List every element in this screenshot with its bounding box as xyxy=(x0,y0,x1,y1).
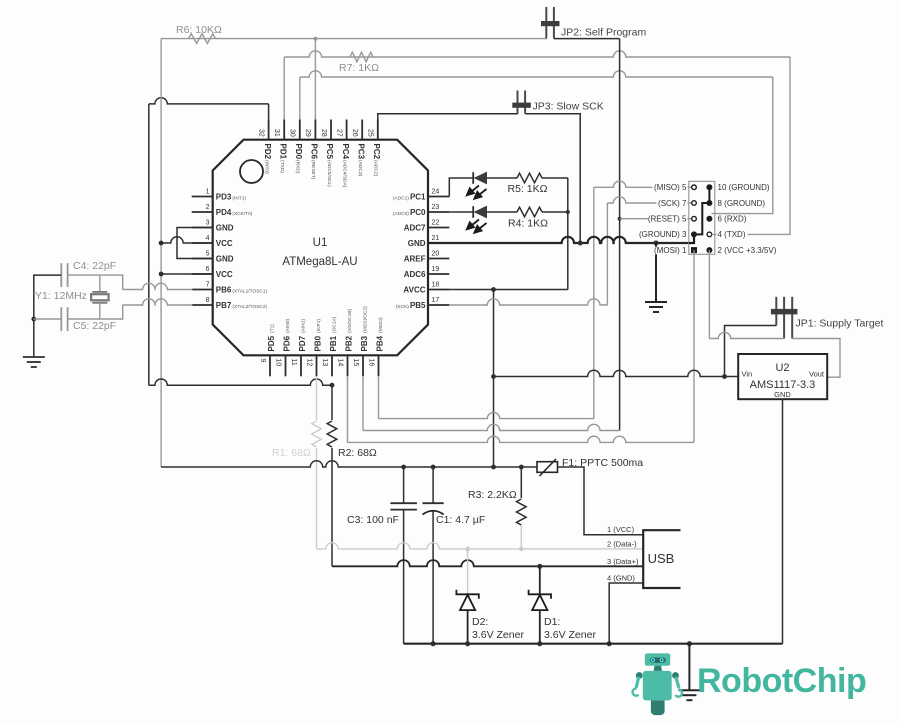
wire JP3 right pin to GND xyxy=(525,114,580,243)
fuse F1 PPTC xyxy=(537,462,558,473)
svg-text:PC4: PC4 xyxy=(341,144,350,160)
svg-text:Y1: 12MHz: Y1: 12MHz xyxy=(35,290,87,302)
wire RESET row xyxy=(620,218,694,220)
wire SCK vertical xyxy=(606,203,608,305)
svg-text:22: 22 xyxy=(432,220,440,227)
pin 17 PB5 (right) xyxy=(428,304,449,306)
wire USB Data+ xyxy=(332,560,643,566)
ground left of crystal xyxy=(23,356,45,358)
svg-text:(SS/OC1B): (SS/OC1B) xyxy=(347,309,353,333)
wire JP1 left leg to VCC line xyxy=(725,326,777,377)
svg-text:PD4: PD4 xyxy=(216,208,232,217)
svg-text:Vout: Vout xyxy=(809,370,825,379)
svg-text:16: 16 xyxy=(367,359,374,367)
svg-text:(INT0): (INT0) xyxy=(263,160,269,174)
wire rail to USB VCC xyxy=(558,467,644,535)
svg-text:(ADC4/SDA): (ADC4/SDA) xyxy=(341,160,347,188)
wire RXD from pin30 xyxy=(300,71,773,77)
svg-text:24: 24 xyxy=(432,189,440,196)
svg-text:PB6: PB6 xyxy=(216,286,232,295)
ISP pin dot VCC2 xyxy=(706,247,712,253)
wire C5 stub xyxy=(34,318,62,320)
pin 14 PB2 (bottom) xyxy=(347,355,349,376)
svg-text:3 (Data+): 3 (Data+) xyxy=(607,557,639,566)
svg-text:5: 5 xyxy=(206,251,210,258)
wire VCC pin2 down xyxy=(708,250,710,338)
svg-text:10: 10 xyxy=(274,359,281,367)
wire XTAL2 pin8 row xyxy=(123,299,193,305)
node VCC pin6 xyxy=(159,272,164,277)
pin 3 GND (left) xyxy=(192,227,213,229)
svg-text:PB4: PB4 xyxy=(375,335,384,351)
LED D-green on PC1 xyxy=(472,172,474,184)
pin 10 PD6 (bottom) xyxy=(285,355,287,376)
svg-text:3.6V Zener: 3.6V Zener xyxy=(544,629,596,641)
svg-text:VCC: VCC xyxy=(216,270,233,279)
ISP pin dot GROUND3 xyxy=(691,231,697,237)
svg-text:2 (VCC +3.3/5V): 2 (VCC +3.3/5V) xyxy=(718,246,777,255)
svg-text:C1: 4.7 µF: C1: 4.7 µF xyxy=(436,514,485,526)
resistor R4 xyxy=(517,207,542,217)
svg-text:(MISO) 5: (MISO) 5 xyxy=(654,183,687,192)
LED2 arrows xyxy=(467,220,487,233)
ISP internal link 8 to GROUND3 xyxy=(694,203,709,234)
svg-text:(ICP1): (ICP1) xyxy=(316,319,322,333)
svg-text:ADC7: ADC7 xyxy=(404,224,426,233)
svg-text:PD2: PD2 xyxy=(263,144,272,160)
wire JP1 right leg to U2 Vout xyxy=(792,339,840,378)
wire C5 row to pin8 jog xyxy=(68,305,123,319)
svg-text:6 (RXD): 6 (RXD) xyxy=(718,215,747,224)
svg-text:14: 14 xyxy=(336,359,343,367)
pin 24 PC1 (right) xyxy=(428,196,449,198)
node USB GND on rail xyxy=(607,641,612,646)
LED D-red on PC0 xyxy=(472,206,474,218)
svg-text:7: 7 xyxy=(206,282,210,289)
wire MISO lower to PB4 xyxy=(378,376,380,418)
svg-text:JP1: Supply Target: JP1: Supply Target xyxy=(796,318,884,330)
svg-text:GND: GND xyxy=(774,390,791,399)
svg-text:8: 8 xyxy=(206,297,210,304)
node R3 on rail xyxy=(519,465,524,470)
svg-text:PD3: PD3 xyxy=(216,193,232,202)
svg-text:(TXD): (TXD) xyxy=(279,160,285,173)
svg-text:(AIN0): (AIN0) xyxy=(285,319,291,333)
wire crystal left rail xyxy=(34,275,62,357)
svg-text:(SCK) 7: (SCK) 7 xyxy=(658,199,687,208)
capacitor C5 xyxy=(60,307,62,331)
jumper JP2 Self Program xyxy=(545,7,547,39)
svg-text:31: 31 xyxy=(273,129,280,137)
ground symbol bottom right xyxy=(678,689,700,691)
wire MISO vertical xyxy=(593,187,595,418)
wire U2 GND down to rail xyxy=(782,399,784,644)
diode D1 3.6V zener xyxy=(539,566,541,594)
resistor R1 68ohm (unpopulated) xyxy=(316,376,318,420)
svg-text:PD1: PD1 xyxy=(278,144,287,160)
svg-text:D2:: D2: xyxy=(472,616,488,628)
svg-text:PD0: PD0 xyxy=(294,144,303,160)
svg-text:C5: 22pF: C5: 22pF xyxy=(73,320,116,332)
wire SCK pin17 row xyxy=(449,299,607,305)
svg-text:32: 32 xyxy=(257,129,264,137)
svg-text:(XCK/T0): (XCK/T0) xyxy=(232,211,252,217)
svg-text:R7: 1KΩ: R7: 1KΩ xyxy=(339,62,379,74)
op-amp U1 ATMega8L-AU outline xyxy=(213,140,428,356)
svg-text:29: 29 xyxy=(304,129,311,137)
wire AVCC vertical down to VCC line xyxy=(493,290,495,468)
pin 4 VCC (left) xyxy=(192,242,213,244)
ISP pin circles left 5,7,5 xyxy=(692,185,697,190)
svg-text:PC5: PC5 xyxy=(325,144,334,160)
svg-text:9: 9 xyxy=(259,359,266,363)
wire USB GND xyxy=(609,583,643,644)
svg-text:2 (Data-): 2 (Data-) xyxy=(607,540,637,549)
svg-text:30: 30 xyxy=(289,129,296,137)
pin 16 PB4 (bottom) xyxy=(378,355,380,376)
node R3 on Data- xyxy=(519,547,524,552)
svg-text:25: 25 xyxy=(367,129,374,137)
svg-text:PD5: PD5 xyxy=(267,335,276,351)
svg-text:10 (GROUND): 10 (GROUND) xyxy=(718,183,770,192)
svg-text:4 (TXD): 4 (TXD) xyxy=(718,230,746,239)
pin 13 PB1 (bottom) xyxy=(331,355,333,376)
wire RXD to connector xyxy=(712,77,773,214)
node JP1 left leg on VCC line xyxy=(722,374,727,379)
wire to bottom ground symbol xyxy=(688,644,690,691)
svg-text:PB0: PB0 xyxy=(313,335,322,351)
svg-text:(GROUND) 3: (GROUND) 3 xyxy=(639,230,687,239)
svg-text:VCC: VCC xyxy=(216,239,233,248)
svg-text:(ADC3): (ADC3) xyxy=(357,160,363,176)
node R4/R5 join xyxy=(566,210,570,214)
resistor R7 xyxy=(350,52,373,62)
node D2 on Data- xyxy=(465,547,470,552)
pin 32 PD2 (top) xyxy=(268,120,270,140)
resistor R3 2.2K xyxy=(520,467,522,498)
resistor R5 xyxy=(517,173,542,183)
capacitor C1 4.7uF polarized xyxy=(432,467,434,503)
node C5 branch xyxy=(31,317,36,322)
connector USB box xyxy=(643,530,680,588)
wire RESET header vertical (JP2 to PB3 line) xyxy=(619,39,621,431)
pin 12 PB0 (bottom) xyxy=(316,355,318,376)
node C1 bottom xyxy=(431,641,436,646)
ISP pin dots right 10,8,6 xyxy=(706,184,712,190)
svg-text:C4: 22pF: C4: 22pF xyxy=(73,260,116,272)
wire VCC pin4 with hop xyxy=(161,237,213,243)
svg-text:R4: 1KΩ: R4: 1KΩ xyxy=(508,218,548,230)
svg-text:PB3: PB3 xyxy=(360,335,369,351)
wire R4 to right vertical xyxy=(542,211,568,213)
svg-text:(RXD): (RXD) xyxy=(295,160,301,174)
svg-text:PB1: PB1 xyxy=(329,335,338,351)
svg-text:19: 19 xyxy=(432,266,440,273)
pin 2 PD4 (left) xyxy=(192,211,213,213)
svg-text:(ADC5/SCL): (ADC5/SCL) xyxy=(326,160,332,187)
svg-text:18: 18 xyxy=(432,282,440,289)
wire INT0 left vertical down xyxy=(148,104,150,385)
svg-text:PB5: PB5 xyxy=(410,301,426,310)
svg-text:3: 3 xyxy=(206,220,210,227)
regulator U2 AMS1117-3.3 box xyxy=(738,354,827,399)
svg-text:26: 26 xyxy=(351,129,358,137)
svg-text:PD6: PD6 xyxy=(282,335,291,351)
node D1 bottom xyxy=(537,641,542,646)
svg-text:PC3: PC3 xyxy=(356,144,365,160)
svg-text:Vin: Vin xyxy=(742,370,753,379)
jumper JP3 Slow SCK xyxy=(517,91,519,114)
ground symbol center xyxy=(645,301,667,303)
pin 21 GND (right) xyxy=(428,242,449,244)
pin 8 PB7 (left) xyxy=(192,304,213,306)
wire bottom GND rail xyxy=(404,643,783,645)
wire GND pin21 row xyxy=(428,237,689,243)
svg-text:(SCK): (SCK) xyxy=(396,304,409,310)
svg-text:4 (GND): 4 (GND) xyxy=(607,574,635,583)
svg-text:15: 15 xyxy=(352,359,359,367)
svg-text:PB7: PB7 xyxy=(216,301,232,310)
svg-text:8 (GROUND): 8 (GROUND) xyxy=(718,199,766,208)
wire JP2 right pin to RESET header net xyxy=(554,38,620,40)
pin 27 PC4 (top) xyxy=(346,120,348,140)
ISP labels left xyxy=(652,184,687,192)
crystal Y1 12MHz xyxy=(99,275,101,292)
svg-text:(T1): (T1) xyxy=(269,324,275,333)
pin 9 PD5 (bottom) xyxy=(269,355,271,376)
svg-text:GND: GND xyxy=(216,255,234,264)
wire pin24 to LED1 jog xyxy=(449,178,473,197)
svg-text:11: 11 xyxy=(290,359,297,366)
svg-text:(ADC2): (ADC2) xyxy=(373,160,379,176)
pin 26 PC3 (top) xyxy=(361,120,363,140)
svg-text:12: 12 xyxy=(305,359,312,367)
pin 23 PC0 (right) xyxy=(428,211,449,213)
capacitor C3 100nF xyxy=(403,467,405,503)
svg-text:R1: 68Ω: R1: 68Ω xyxy=(272,447,311,459)
logo RobotChip robot xyxy=(633,653,682,715)
wire INT0 pin32 to left vertical xyxy=(268,104,270,120)
pin 31 PD1 (top) xyxy=(283,120,285,140)
wire R5/R4 vertical to AVCC row xyxy=(567,178,569,290)
svg-text:ADC6: ADC6 xyxy=(404,270,426,279)
svg-text:JP3: Slow SCK: JP3: Slow SCK xyxy=(533,101,604,113)
pin 1 PD3 (left) xyxy=(192,196,213,198)
svg-text:1: 1 xyxy=(206,189,210,196)
wire MOSI lower to PB2 xyxy=(347,376,349,442)
pin 29 PC6 (top) xyxy=(314,120,316,140)
svg-text:(AIN1): (AIN1) xyxy=(300,319,306,333)
svg-text:AREF: AREF xyxy=(404,255,426,264)
node PB1/R2 xyxy=(330,383,335,388)
resistor R2 68ohm xyxy=(331,385,333,420)
pin 25 PC2 (top) xyxy=(377,120,379,140)
svg-text:U1: U1 xyxy=(313,237,328,249)
svg-text:PC0: PC0 xyxy=(410,208,426,217)
svg-text:R2: 68Ω: R2: 68Ω xyxy=(338,447,377,459)
node C3 on rail xyxy=(401,465,406,470)
node AVCC/VCC-line junction xyxy=(491,374,496,379)
svg-text:GND: GND xyxy=(216,224,234,233)
wire USB D+ line from pin13 xyxy=(149,379,332,385)
pin 15 PB3 (bottom) xyxy=(362,355,364,376)
svg-text:23: 23 xyxy=(432,204,440,211)
wire TXD to connector xyxy=(712,57,791,234)
wire LED2 to R4 xyxy=(487,211,517,213)
svg-text:6: 6 xyxy=(206,266,210,273)
svg-text:GND: GND xyxy=(408,239,426,248)
svg-text:PD7: PD7 xyxy=(298,335,307,351)
pin 20 AREF (right) xyxy=(428,258,449,260)
wire VCC top rail from R6 to JP2 xyxy=(161,38,546,40)
svg-text:20: 20 xyxy=(432,251,440,258)
diode D2 3.6V zener xyxy=(467,549,469,594)
svg-text:C3: 100 nF: C3: 100 nF xyxy=(347,514,399,526)
svg-text:(MOSI) 1: (MOSI) 1 xyxy=(654,246,687,255)
svg-text:ATMega8L-AU: ATMega8L-AU xyxy=(282,256,357,268)
connector SV1 ISP box xyxy=(689,181,715,254)
svg-text:27: 27 xyxy=(335,129,342,137)
node C1 on rail xyxy=(431,465,436,470)
resistor R6 xyxy=(189,34,216,44)
svg-text:(INT1): (INT1) xyxy=(232,195,246,201)
wire LED1 to R5 xyxy=(487,177,517,179)
svg-text:(ADC0): (ADC0) xyxy=(393,211,409,217)
svg-text:1 (VCC): 1 (VCC) xyxy=(607,525,635,534)
node ground drop xyxy=(687,641,692,646)
svg-text:R5: 1KΩ: R5: 1KΩ xyxy=(508,183,548,195)
ISP labels right xyxy=(717,184,765,192)
svg-text:(MISO): (MISO) xyxy=(378,317,384,333)
svg-text:RobotChip: RobotChip xyxy=(697,662,866,700)
svg-text:D1:: D1: xyxy=(544,616,560,628)
wire pin31 vertical xyxy=(283,57,285,120)
wire MISO row xyxy=(594,181,694,187)
U1 pin1 marker circle xyxy=(240,160,263,183)
node AVCC vert on rail xyxy=(491,465,496,470)
svg-text:17: 17 xyxy=(432,297,440,304)
wire AVCC pin18 row xyxy=(449,289,568,291)
svg-text:R3: 2.2KΩ: R3: 2.2KΩ xyxy=(468,489,517,501)
wire RESET lower to PB3 xyxy=(362,376,364,430)
pin 6 VCC (left) xyxy=(192,273,213,275)
wire JP1 middle leg to ISP VCC xyxy=(709,332,784,338)
svg-text:13: 13 xyxy=(321,359,328,367)
wire JP3 left pin to pin 25 xyxy=(378,114,518,140)
svg-text:PC6: PC6 xyxy=(310,144,319,160)
wire pin23 to LED2 xyxy=(449,211,473,213)
svg-text:(RESET) 5: (RESET) 5 xyxy=(648,215,687,224)
ISP internal link pins 10-8 xyxy=(708,187,710,203)
svg-text:21: 21 xyxy=(432,235,440,242)
node GND/JP3 xyxy=(578,241,583,246)
svg-text:U2: U2 xyxy=(775,362,789,374)
wire XTAL1 pin7 row xyxy=(123,283,193,289)
wire RESET vertical to pin 29 xyxy=(314,39,316,120)
svg-text:2: 2 xyxy=(206,204,210,211)
svg-text:PB2: PB2 xyxy=(344,335,353,351)
node R6/RESET junction xyxy=(313,37,317,41)
pin 5 GND (left) xyxy=(192,258,213,260)
svg-text:JP2: Self Program: JP2: Self Program xyxy=(561,27,646,39)
ISP GROUND3 exit to GND net xyxy=(689,234,694,243)
ISP pin square MOSI1 xyxy=(691,247,697,253)
ISP pin circle TXD4 xyxy=(707,232,712,237)
wire SCK row xyxy=(607,197,694,203)
svg-text:AVCC: AVCC xyxy=(403,286,425,295)
wire VCC left vertical down xyxy=(160,39,162,467)
jumper JP1 Supply Target xyxy=(775,297,777,326)
pin 11 PD7 (bottom) xyxy=(300,355,302,376)
pin 22 ADC7 (right) xyxy=(428,227,449,229)
wire to center ground symbol xyxy=(655,243,657,302)
node VCC pin4 xyxy=(159,241,164,246)
pin 28 PC5 (top) xyxy=(330,120,332,140)
svg-text:(RESET): (RESET) xyxy=(310,160,316,180)
svg-text:PC2: PC2 xyxy=(372,144,381,160)
pin 30 PD0 (top) xyxy=(299,120,301,140)
wire R5 to right vertical xyxy=(542,177,568,179)
pin 18 AVCC (right) xyxy=(428,289,449,291)
wire GND bracket pins 3-5 xyxy=(177,228,213,259)
node D2 bottom xyxy=(465,641,470,646)
svg-text:28: 28 xyxy=(320,129,327,137)
svg-text:PC1: PC1 xyxy=(410,193,426,202)
node AVCC branch xyxy=(491,287,496,292)
wire TXD from pin31 through R7 xyxy=(284,51,790,57)
capacitor C4 xyxy=(60,263,62,287)
svg-text:(OC1A): (OC1A) xyxy=(331,316,337,333)
pin 7 PB6 (left) xyxy=(192,289,213,291)
svg-text:(ADC1): (ADC1) xyxy=(393,195,409,201)
wire USB Data- (unpopulated) xyxy=(317,543,644,549)
wire VCC pin6 xyxy=(161,273,213,275)
node D1 on Data+ xyxy=(537,564,542,569)
svg-text:3.6V Zener: 3.6V Zener xyxy=(472,629,524,641)
svg-text:(MOSI/OC2): (MOSI/OC2) xyxy=(362,306,368,333)
wire VCC line to U2 Vin xyxy=(494,370,739,376)
svg-text:R6: 10KΩ: R6: 10KΩ xyxy=(176,24,222,36)
wire MOSI pin1 down xyxy=(693,250,695,442)
wire VCC rail xyxy=(161,461,537,467)
svg-text:USB: USB xyxy=(648,551,675,566)
pin 19 ADC6 (right) xyxy=(428,273,449,275)
wire pin30 vertical xyxy=(299,77,301,120)
node GND/ground-symbol xyxy=(654,241,659,246)
svg-text:(XTAL1/TOSC1): (XTAL1/TOSC1) xyxy=(232,288,267,294)
LED1 arrows xyxy=(467,186,487,199)
svg-text:(XTAL2/TOSC2): (XTAL2/TOSC2) xyxy=(232,304,267,310)
wire C4 row to pin7 jog xyxy=(68,275,123,289)
svg-text:4: 4 xyxy=(206,235,210,242)
